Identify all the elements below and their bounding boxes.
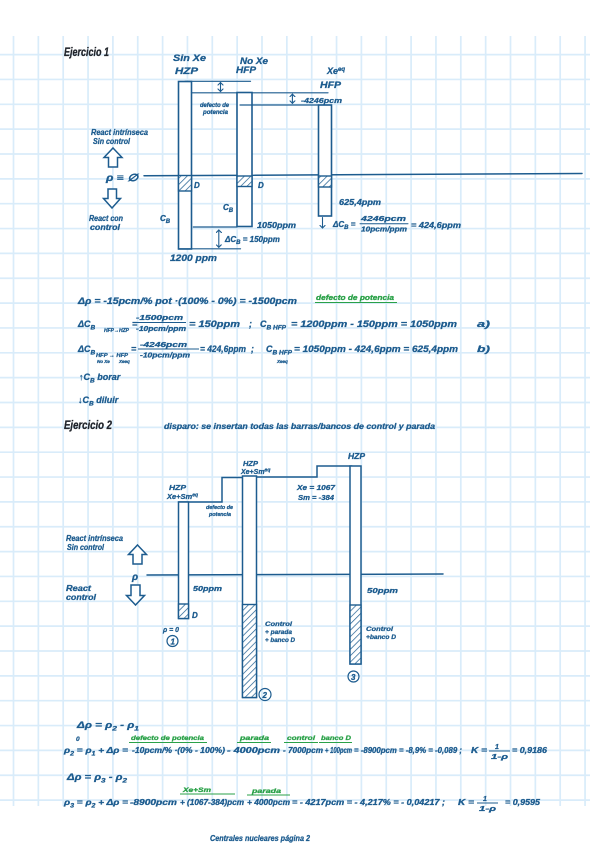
axis rho=0 (exercise 1) (144, 174, 582, 176)
line 1050ppm level (193, 226, 237, 228)
svg-text:Sin Xe: Sin Xe (173, 53, 206, 63)
svg-text:Centrales nucleares página 2: Centrales nucleares página 2 (210, 833, 310, 843)
bar 2 ex2 (243, 476, 257, 698)
svg-text:Xeeq: Xeeq (276, 359, 288, 364)
step line bar2-bar3 (257, 466, 353, 477)
svg-text:-4246pcm: -4246pcm (140, 342, 187, 349)
svg-text:control: control (90, 223, 121, 232)
svg-text:= 0,9595: = 0,9595 (505, 798, 541, 807)
svg-text:1: 1 (495, 744, 499, 751)
svg-text:K =: K = (458, 798, 474, 807)
svg-text:= 1200ppm - 150ppm = 1050ppm: = 1200ppm - 150ppm = 1050ppm (291, 319, 457, 329)
bar 1 ex1 (Sin Xe HZP) (179, 82, 192, 250)
svg-text:Xe+Sm: Xe+Sm (182, 787, 212, 794)
top line bar1 (185, 80, 251, 82)
svg-text:ΔCB: ΔCB (77, 319, 96, 332)
svg-text:1-ρ: 1-ρ (479, 806, 497, 813)
svg-text:50ppm: 50ppm (367, 586, 398, 595)
step line bar1-bar2 (179, 478, 244, 503)
svg-text:2: 2 (262, 691, 268, 700)
bar 2 ex1 (No Xe HFP) (237, 93, 252, 227)
svg-text:defecto de potencia: defecto de potencia (316, 295, 394, 302)
circled 2 (259, 689, 271, 701)
svg-text:HZP: HZP (348, 452, 366, 461)
bar 2 hatch (243, 605, 257, 698)
svg-text:+ parada: + parada (265, 629, 292, 636)
svg-text:625,4ppm: 625,4ppm (339, 198, 381, 207)
svg-text:ΔCB: ΔCB (77, 344, 96, 357)
svg-text:D: D (192, 611, 198, 620)
svg-text:potencia: potencia (208, 512, 231, 518)
svg-text:ρ2 = ρ1 + Δρ =: ρ2 = ρ1 + Δρ = (63, 745, 128, 758)
svg-text:ΔCB = 150ppm: ΔCB = 150ppm (224, 235, 280, 246)
block arrow up ex1 (104, 148, 122, 167)
svg-text:↑CB borar: ↑CB borar (79, 372, 121, 385)
svg-text:Ejercicio 2: Ejercicio 2 (64, 418, 112, 432)
svg-text:3: 3 (351, 673, 356, 682)
svg-text:defecto de: defecto de (200, 103, 230, 109)
svg-text:= 424,6ppm: = 424,6ppm (200, 344, 246, 354)
svg-text:= 150ppm: = 150ppm (189, 319, 240, 329)
svg-text:1: 1 (483, 796, 487, 803)
arrow delta CB 150ppm (218, 230, 220, 247)
svg-text:= 1050ppm - 424,6ppm = 625,4pp: = 1050ppm - 424,6ppm = 625,4ppm (294, 344, 458, 354)
bar 2 hatched D section (237, 176, 252, 187)
svg-text:Sin control: Sin control (93, 137, 131, 146)
svg-text:Δρ = ρ2 - ρ1: Δρ = ρ2 - ρ1 (76, 720, 140, 733)
svg-text:Control: Control (265, 621, 292, 628)
svg-text:= - 4217pcm = - 4,217% = - 0,0: = - 4217pcm = - 4,217% = - 0,04217 ; (292, 798, 445, 807)
svg-text:Xe+Smeq: Xe+Smeq (240, 468, 270, 477)
bar 1 ex2 (179, 502, 189, 619)
svg-text:Ejercicio 1: Ejercicio 1 (64, 45, 109, 59)
bar 3 hatched D section (319, 176, 332, 187)
svg-text:ρ: ρ (131, 572, 138, 583)
svg-text:+ 100pcm: + 100pcm (325, 746, 352, 755)
bar 3 hatch (350, 605, 361, 664)
svg-text:defecto de potencia: defecto de potencia (131, 735, 204, 742)
svg-text:- 4000pcm: - 4000pcm (227, 746, 280, 755)
svg-text:CB HFP: CB HFP (260, 319, 287, 332)
svg-text:;: ; (251, 344, 254, 354)
svg-text:1050ppm: 1050ppm (257, 221, 296, 230)
svg-text:1-ρ: 1-ρ (491, 754, 509, 761)
svg-text:50ppm: 50ppm (193, 584, 222, 593)
svg-text:+ 4000pcm: + 4000pcm (247, 798, 290, 807)
svg-text:4246pcm: 4246pcm (359, 216, 406, 223)
arrow below bar3 (322, 218, 324, 229)
svg-text:=: = (131, 344, 137, 354)
line bar2 to bar3 top (240, 104, 319, 106)
line bar2 right extension (252, 92, 328, 94)
svg-text:;: ; (249, 319, 252, 329)
svg-text:Xeeq: Xeeq (118, 359, 130, 364)
svg-text:Xe = 1067: Xe = 1067 (296, 483, 336, 492)
svg-text:React con: React con (89, 214, 123, 223)
svg-text:-4246pcm: -4246pcm (301, 96, 342, 105)
block arrow down ex2 (127, 585, 145, 605)
svg-text:control: control (66, 593, 97, 602)
svg-text:parada: parada (251, 788, 282, 795)
axis rho (exercise 2) (147, 574, 443, 575)
svg-text:control: control (287, 735, 315, 742)
svg-text:b): b) (477, 344, 490, 354)
svg-text:Sm = -384: Sm = -384 (298, 493, 335, 502)
block arrow up ex2 (129, 545, 147, 564)
line bar1 right to bar2 top (192, 92, 238, 94)
svg-text:React intrínseca: React intrínseca (66, 534, 124, 543)
svg-text:10pcm/ppm: 10pcm/ppm (361, 227, 407, 234)
svg-text:HZP: HZP (169, 483, 187, 492)
bar 3 ex2 (350, 466, 361, 664)
svg-text:React intrínseca: React intrínseca (91, 128, 149, 137)
svg-text:Xe+Smeq: Xe+Smeq (166, 492, 198, 501)
circled 1 (167, 636, 178, 647)
svg-text:potencia: potencia (202, 110, 229, 116)
svg-text:= 424,6ppm: = 424,6ppm (411, 221, 461, 230)
svg-text:CB: CB (223, 203, 234, 214)
svg-text:= 0,9186: = 0,9186 (512, 746, 548, 755)
svg-text:- 7000pcm: - 7000pcm (283, 746, 323, 755)
svg-text:-10pcm/ppm: -10pcm/ppm (140, 353, 190, 360)
svg-text:-10pcm/% ·(0% - 100%): -10pcm/% ·(0% - 100%) (132, 746, 225, 755)
svg-text:defecto de: defecto de (206, 505, 233, 511)
arrow Xe defect (291, 94, 293, 103)
svg-text:parada: parada (239, 735, 270, 742)
svg-text:No Xe: No Xe (97, 359, 110, 364)
svg-text:K =: K = (471, 746, 487, 755)
svg-text:-8900pcm: -8900pcm (130, 798, 177, 807)
svg-text:D: D (258, 181, 264, 190)
svg-text:Sin control: Sin control (67, 543, 105, 552)
svg-text:banco D: banco D (321, 735, 351, 742)
svg-text:Δρ = ρ3 - ρ2: Δρ = ρ3 - ρ2 (66, 772, 128, 785)
bar 3 ex1 (Xe eq HFP) (319, 105, 332, 216)
svg-text:Xeeq: Xeeq (326, 66, 345, 76)
block arrow down ex1 (104, 189, 121, 208)
svg-text:+banco D: +banco D (366, 634, 396, 641)
svg-text:1200 ppm: 1200 ppm (170, 253, 217, 263)
bar 1 hatched D section (179, 176, 192, 192)
svg-text:CB HFP: CB HFP (266, 344, 293, 357)
svg-text:+ banco D: + banco D (265, 637, 295, 644)
svg-text:ρ ≡ ∅: ρ ≡ ∅ (105, 173, 140, 184)
svg-text:1: 1 (171, 638, 176, 647)
svg-text:HZP: HZP (243, 461, 258, 468)
svg-text:HZP: HZP (175, 66, 199, 77)
bottom line 1200ppm level (179, 248, 241, 250)
svg-text:-10pcm/ppm: -10pcm/ppm (136, 326, 186, 333)
svg-text:-1500pcm: -1500pcm (136, 315, 183, 322)
svg-text:disparo: se insertan todas las: disparo: se insertan todas las barras/ba… (164, 422, 436, 431)
svg-text:CB: CB (160, 214, 171, 225)
arrow defect of power (bar1->bar2 level) (220, 83, 222, 92)
svg-text:React: React (66, 584, 91, 593)
svg-text:D: D (194, 181, 200, 190)
bar 1 hatch tip (179, 604, 189, 619)
svg-text:+ (1067-384)pcm: + (1067-384)pcm (180, 798, 244, 807)
svg-text:HFP→HZP: HFP→HZP (104, 328, 129, 334)
svg-text:HFP: HFP (236, 65, 257, 76)
svg-text:Control: Control (366, 626, 393, 633)
circled 3 (348, 671, 359, 682)
svg-text:= -8900pcm = -8,9% = -0,089 ;: = -8900pcm = -8,9% = -0,089 ; (354, 746, 462, 755)
svg-text:ρ = 0: ρ = 0 (162, 625, 180, 634)
svg-text:HFP: HFP (320, 80, 342, 91)
svg-text:a): a) (477, 319, 490, 329)
svg-text:ρ3 = ρ2 + Δρ =: ρ3 = ρ2 + Δρ = (63, 797, 128, 810)
svg-text:0: 0 (76, 736, 80, 743)
svg-text:Δρ = -15pcm/% pot ·(100% - 0%): Δρ = -15pcm/% pot ·(100% - 0%) = -1500pc… (77, 296, 297, 306)
